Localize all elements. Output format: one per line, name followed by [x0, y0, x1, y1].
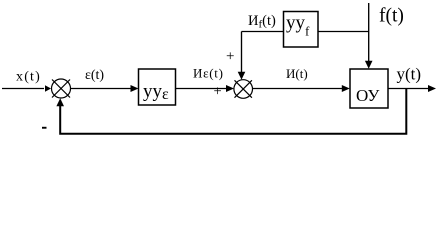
svg-text:Иε(t): Иε(t) — [193, 66, 224, 81]
svg-text:+: + — [226, 49, 234, 65]
svg-text:Иf(t): Иf(t) — [248, 13, 276, 31]
svg-text:y(t): y(t) — [397, 65, 422, 84]
svg-text:f(t): f(t) — [379, 6, 404, 27]
svg-text:И(t): И(t) — [286, 66, 308, 81]
svg-text:+: + — [214, 84, 222, 100]
svg-text:ε(t): ε(t) — [85, 68, 104, 83]
svg-text:x(t): x(t) — [16, 70, 41, 85]
svg-text:ОУ: ОУ — [356, 86, 380, 105]
